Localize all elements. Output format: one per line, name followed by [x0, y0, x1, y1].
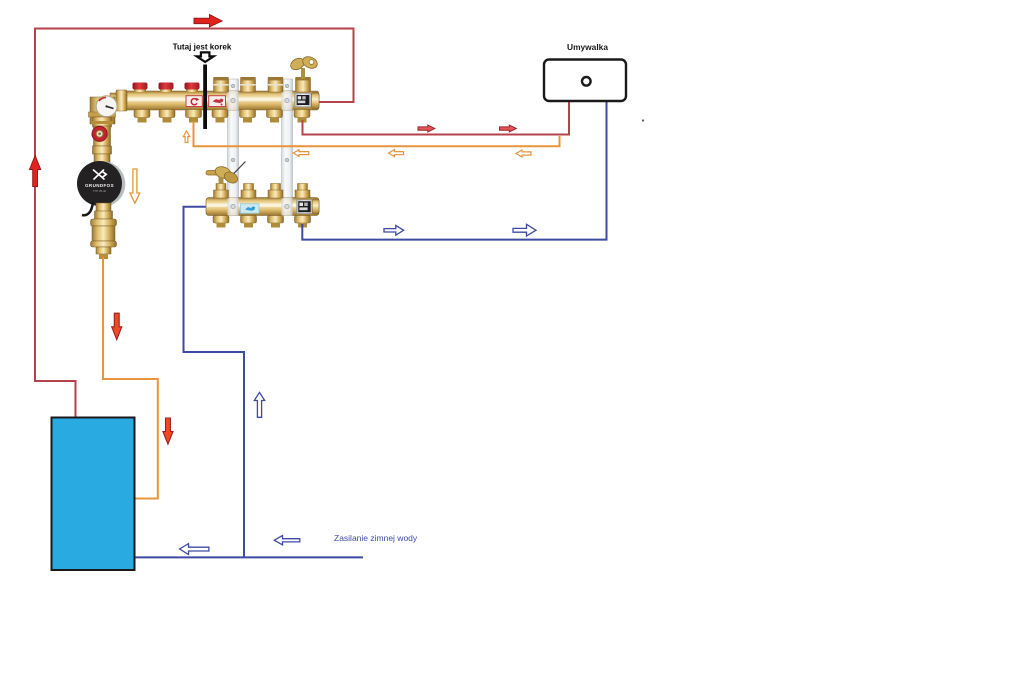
upper bar port 2 [159, 110, 175, 123]
wire: orange manifold-to-sink return line [194, 121, 560, 146]
wire: orange pump-to-tank line [103, 257, 158, 499]
red shut-off valve on riser [92, 126, 111, 146]
arrow red right (top run) [194, 15, 222, 27]
upper bar port 7 [294, 110, 310, 123]
strap right clamp over lower bar [282, 198, 293, 216]
MANIFOLD ASSEMBLY [77, 54, 319, 259]
svg-text:TYP 25-40: TYP 25-40 [93, 189, 107, 193]
arrow orange up (at manifold port) [183, 131, 189, 143]
lower bar port 3 [268, 216, 284, 228]
upper bar brass valve 1 [214, 77, 229, 92]
tank (boiler) [52, 418, 135, 571]
arrow red up (left riser) [30, 156, 41, 187]
lower bar valve 4 (knurled) [295, 184, 310, 199]
brass isolation cylinder [91, 219, 117, 259]
upper bar right end nut [312, 93, 320, 109]
upper bar label plate red 2 (faucet icon) [209, 96, 226, 107]
sink drain circle [582, 77, 591, 86]
arrow red down (lower, near tank) [163, 418, 173, 444]
arrow blue right 2 (to sink) [513, 224, 536, 236]
lower bar valve 2 (knurled) [241, 184, 256, 199]
arrow orange down big (beside pump) [130, 169, 140, 203]
lower bar black gauge plate (right end) [297, 200, 312, 214]
brass nut under elbow [91, 117, 113, 127]
upper bar port 6 [267, 110, 283, 123]
lower bar port 4 [295, 216, 311, 228]
strap right clamp over upper bar [282, 91, 293, 110]
upper manifold bar [117, 91, 319, 110]
wire: red manifold-to-sink hot line [303, 101, 570, 135]
upper bar brass valve 4 [296, 77, 311, 92]
wire: blue cold-feed-to-manifold line [184, 207, 245, 558]
korek marker bar [203, 65, 207, 130]
strap screw holes [231, 84, 234, 87]
korek pointer arrow (black outline down) [197, 52, 214, 62]
brass connector under pump [95, 203, 113, 219]
lower bar blue label plate (faucet icon) [241, 204, 260, 213]
brass unions below valve [93, 146, 112, 163]
lower manifold bar [206, 198, 319, 216]
wire: blue cold water supply line [134, 556, 363, 558]
pump Grundfos [77, 161, 125, 207]
arrow orange left 1 (return line) [293, 150, 309, 157]
left elbow fitting under bar end [89, 90, 128, 124]
arrow blue left 2 (cold supply) [274, 536, 300, 545]
stray dot [642, 119, 644, 121]
svg-text:Tutaj jest korek: Tutaj jest korek [173, 43, 232, 52]
upper bar port 4 [212, 110, 228, 123]
lower bar port 1 [213, 216, 229, 228]
upper bar red flow-meter cap 3 [185, 83, 200, 93]
upper bar brass valve 2 [241, 77, 256, 92]
lower bar port 2 [241, 216, 257, 228]
upper bar label plate red 1 (circulation icon) [186, 96, 202, 107]
arrow blue left 1 (cold supply) [180, 544, 209, 555]
upper bar silver gauge plate (right end) [295, 93, 312, 107]
upper bar port 5 [240, 110, 256, 123]
upper bar port 1 [134, 110, 150, 123]
strap left (mounting bracket) [228, 79, 239, 198]
upper bar brass valve 3 [268, 77, 283, 92]
wire: red boiler-to-manifold loop [35, 29, 354, 418]
sink box Umywalka [544, 60, 626, 102]
brass key on lower bar valve 1 [206, 162, 246, 186]
svg-text:GRUNDFOS: GRUNDFOS [85, 183, 114, 188]
wire: blue manifold-to-sink line [302, 101, 606, 240]
pump cable [82, 202, 93, 215]
arrow red small right 2 (hot line) [500, 125, 517, 132]
strap right (mounting bracket) [282, 79, 293, 198]
strap left clamp over upper bar [228, 91, 239, 110]
lower bar valve 3 (knurled) [268, 184, 283, 199]
arrow orange left 3 (return line) [516, 150, 531, 157]
upper bar red flow-meter cap 1 [133, 83, 148, 93]
svg-text:Zasilanie zimnej wody: Zasilanie zimnej wody [334, 533, 418, 543]
arrow blue up (cold riser) [254, 392, 264, 417]
arrow red small right 1 (hot line) [418, 125, 435, 132]
strap left clamp over lower bar [228, 198, 239, 216]
arrow blue right 1 (to sink) [384, 225, 404, 235]
svg-text:Umywalka: Umywalka [567, 42, 608, 52]
brass vent key on upper bar valve 4 [289, 54, 319, 79]
upper bar port 3 [186, 110, 202, 123]
pressure gauge [96, 96, 118, 118]
arrow orange left 2 (return line) [389, 150, 404, 157]
lower bar valve 1 (knurled) [214, 184, 229, 199]
arrow red down (upper, near pump drop) [112, 313, 122, 339]
lower bar right end nut [312, 199, 319, 214]
upper bar red flow-meter cap 2 [159, 83, 174, 93]
